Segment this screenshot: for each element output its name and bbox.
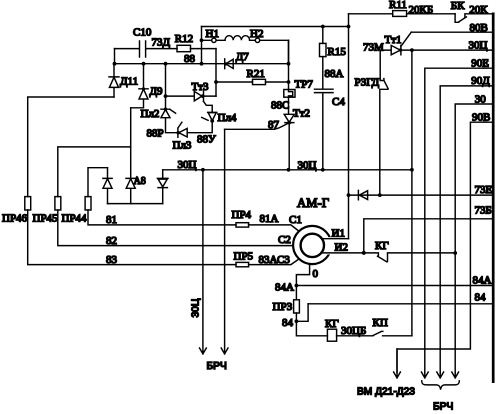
svg-text:Д7: Д7: [236, 51, 250, 63]
wire I2 with contact KG: [322, 240, 455, 262]
svg-text:Пл3: Пл3: [173, 139, 192, 151]
svg-text:87: 87: [268, 119, 280, 131]
wire Tt2 cathode down: [288, 123, 290, 170]
thyristor Tt3: [164, 81, 216, 102]
svg-text:88Р: 88Р: [147, 127, 164, 139]
diode D7: [224, 51, 249, 69]
svg-text:73Б: 73Б: [475, 204, 492, 216]
svg-text:R15: R15: [328, 46, 347, 58]
wire I1: [322, 228, 348, 240]
wire bus 73E: [349, 184, 493, 197]
svg-text:30Ц: 30Ц: [178, 159, 197, 171]
svg-text:R11: R11: [389, 0, 407, 11]
wire net 81: [88, 210, 298, 230]
contact KP: [337, 317, 412, 337]
generator AM-G rotor: [301, 234, 334, 257]
fuse PR45: [33, 147, 131, 225]
thyristor Tt1: [363, 34, 402, 55]
svg-text:Тт1: Тт1: [385, 34, 402, 46]
svg-text:82: 82: [106, 235, 117, 247]
svg-text:ПР46: ПР46: [2, 213, 28, 225]
svg-text:0: 0: [313, 268, 319, 280]
wire C10 left down: [114, 49, 116, 64]
wire riser x216: [214, 49, 218, 97]
svg-text:83А: 83А: [259, 254, 278, 266]
terminal H1: [206, 28, 219, 43]
svg-text:20К: 20К: [469, 4, 488, 16]
svg-text:Д11: Д11: [120, 76, 138, 88]
wire right edge rail: [492, 14, 495, 382]
wire BRCh left arrow 2: [207, 129, 229, 371]
svg-text:ПР5: ПР5: [234, 250, 254, 262]
svg-text:84: 84: [475, 292, 487, 304]
svg-text:80В: 80В: [470, 22, 488, 34]
wire Pl4 to 88U: [187, 121, 216, 146]
svg-text:90Е: 90Е: [471, 57, 489, 69]
svg-text:R12: R12: [175, 33, 193, 45]
fuse PR46: [2, 197, 31, 225]
fuse PR4: [232, 209, 252, 227]
wire diode bottom: [108, 203, 163, 205]
wire BRCh left arrow 1: [191, 170, 207, 354]
svg-text:ПР44: ПР44: [62, 213, 88, 225]
svg-text:АМ-Г: АМ-Г: [297, 196, 329, 210]
wire bus 90V: [397, 111, 492, 372]
wire 84 to bus: [296, 304, 308, 322]
brace BRCh: [422, 381, 460, 413]
svg-text:83: 83: [106, 254, 118, 266]
svg-text:30Ц: 30Ц: [191, 298, 202, 317]
wire riser x348 R11/I1: [321, 14, 351, 239]
wire net 88: [113, 53, 291, 66]
wire bus 30: [453, 93, 491, 372]
resistor R15: [320, 27, 347, 59]
svg-text:Н2: Н2: [250, 28, 263, 40]
svg-text:81: 81: [106, 214, 117, 226]
wire left long: [28, 97, 114, 197]
node 84: [282, 317, 298, 329]
svg-text:88А: 88А: [325, 68, 344, 80]
svg-text:С1: С1: [289, 214, 302, 226]
resistor R21: [247, 68, 266, 85]
fuse PR44: [62, 168, 108, 225]
wire R12 to right riser: [191, 48, 217, 50]
svg-text:20КБ: 20КБ: [409, 4, 434, 16]
wire Tt3 gate: [204, 101, 213, 112]
wire riser 30Ts to KP: [411, 50, 413, 336]
svg-text:КП: КП: [373, 317, 388, 329]
wire bus 30Ts right: [401, 39, 493, 52]
diode D11: [109, 64, 138, 97]
svg-text:Пл4: Пл4: [218, 112, 237, 124]
thyristor Pl2: [141, 64, 176, 120]
svg-text:73Д: 73Д: [152, 37, 171, 49]
svg-text:ТР7: ТР7: [295, 79, 314, 91]
wire bus 84A: [275, 275, 493, 294]
fuse PR3: [273, 286, 300, 322]
fuse PR5: [234, 250, 254, 267]
svg-text:30ЦБ: 30ЦБ: [341, 325, 366, 337]
wire bus 84: [308, 292, 492, 304]
svg-text:РЗГД: РЗГД: [355, 77, 380, 89]
thyristor Pl4: [202, 112, 237, 124]
svg-text:90Д: 90Д: [471, 75, 490, 87]
wire BRCh right arrows: [421, 372, 458, 378]
svg-text:КГ: КГ: [375, 240, 389, 252]
wire VM arrow: [357, 349, 415, 398]
svg-text:ВМ Д21-Д23: ВМ Д21-Д23: [357, 387, 415, 398]
svg-text:73Е: 73Е: [475, 184, 493, 196]
diode D-left: [103, 168, 112, 204]
svg-text:84: 84: [282, 317, 294, 329]
svg-text:ПРЗ: ПРЗ: [273, 301, 293, 313]
thermal element TP7: [284, 40, 314, 97]
diode Pl3: [173, 122, 192, 151]
wire H2 down to TP7 column: [288, 40, 290, 63]
capacitor C10: [115, 27, 178, 58]
diode A8: [126, 176, 146, 204]
svg-text:Д9: Д9: [150, 86, 164, 98]
switch BK: [451, 0, 493, 22]
svg-text:88У: 88У: [197, 134, 216, 146]
svg-text:Н1: Н1: [206, 28, 219, 40]
inductor H1-H2 winding: [225, 36, 250, 41]
svg-text:88С: 88С: [271, 100, 289, 112]
wire Tt2 gate net 87: [225, 119, 289, 131]
svg-text:30Ц: 30Ц: [298, 160, 317, 172]
wire bus 80V: [411, 22, 492, 34]
generator AM-G stator: [277, 196, 331, 266]
wire bus 90D: [440, 75, 491, 373]
svg-text:С3: С3: [277, 254, 290, 266]
svg-text:84А: 84А: [275, 282, 294, 294]
svg-text:30Ц: 30Ц: [469, 39, 488, 51]
thyristor Tt2: [271, 97, 310, 124]
wire D9 down to A8: [130, 108, 132, 179]
svg-text:БРЧ: БРЧ: [433, 401, 453, 412]
svg-text:30: 30: [475, 93, 487, 105]
svg-text:С4: С4: [332, 96, 345, 108]
svg-text:88: 88: [184, 53, 196, 65]
resistor R12: [175, 33, 193, 52]
svg-text:И2: И2: [335, 242, 348, 254]
terminal H2: [250, 28, 263, 43]
svg-text:А8: А8: [134, 176, 146, 187]
diode D9: [131, 64, 163, 108]
svg-text:С10: С10: [133, 27, 152, 39]
wire bus 90E: [425, 57, 492, 372]
svg-text:Пл2: Пл2: [141, 108, 160, 120]
contact RZGD: [355, 50, 389, 195]
svg-text:БРЧ: БРЧ: [207, 361, 227, 372]
wire H1 branch: [202, 39, 289, 41]
svg-text:КГ: КГ: [325, 318, 339, 330]
svg-text:Тт3: Тт3: [192, 81, 210, 93]
wire net 82: [58, 210, 293, 247]
wire Tt1 gate to 80V: [401, 32, 411, 46]
wire 88R: [147, 118, 178, 140]
svg-text:БК: БК: [451, 0, 465, 12]
wire net 30Ts main: [163, 159, 414, 172]
svg-text:81А: 81А: [260, 213, 279, 225]
wire bus 73B: [362, 204, 492, 255]
wire net R21 row: [216, 80, 290, 84]
wire net 83: [28, 210, 298, 266]
svg-text:Тт2: Тт2: [293, 108, 310, 120]
svg-text:И1: И1: [332, 228, 345, 240]
resistor R11: [349, 0, 456, 16]
relay coil KG: [296, 318, 338, 341]
svg-text:R21: R21: [247, 68, 265, 80]
diode D-down: [157, 170, 168, 204]
svg-text:С2: С2: [278, 234, 291, 246]
wire top bus: [202, 26, 349, 28]
diode on 73E: [358, 190, 367, 199]
svg-text:ПР45: ПР45: [33, 213, 59, 225]
svg-text:90В: 90В: [472, 111, 490, 123]
capacitor C4: [315, 57, 346, 170]
svg-text:ПР4: ПР4: [232, 209, 252, 221]
svg-text:84А: 84А: [473, 275, 492, 287]
node junction top-left riser: [200, 27, 204, 66]
wire terminal 0: [296, 264, 318, 286]
